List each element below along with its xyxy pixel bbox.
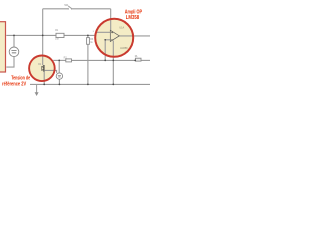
highlight circle op-amp U1 [95,19,133,57]
op-amp U1 +in mark [111,31,113,33]
wire jog to op-amp +in [96,32,111,35]
reference device D1 glyph [42,65,44,72]
switch SW1 lever [68,6,71,9]
wire battery top drop x=14 [13,35,15,47]
wire battery bottom drop x=14 [6,57,14,68]
meter M1 marks [58,76,61,77]
wire op-amp V+ pin [110,9,112,30]
svg-text:LM358: LM358 [126,15,139,21]
voltage source V1 circle [9,47,19,57]
wire sense drop x=59.2 [58,60,60,73]
wire ground rail y=84.4 [30,83,150,85]
meter M1 circle [56,73,62,79]
ground arrow head [35,92,39,96]
op-amp U1 -in mark [111,39,113,41]
load connector J1 [135,58,141,61]
wire sense horizontal y=60.4 right [141,59,150,61]
svg-text:LM358: LM358 [120,47,128,50]
wire below meter circle [58,79,60,84]
ground arrow stem [36,84,38,92]
battery highlight box V1 [0,22,6,72]
wire op-amp V- pin [112,41,114,85]
svg-text:référence 2V: référence 2V [2,81,26,87]
op-amp U1 triangle [110,30,119,41]
resistor R2 [66,59,72,62]
wire top rail left segment [43,8,69,10]
wire op-amp output [119,35,150,37]
highlight ring op-amp U1 [95,19,133,57]
junction node dots [13,35,136,86]
wire R3 top lead [87,35,89,37]
wire main horizontal right of R1 [64,34,96,36]
wire R3 bottom lead to rail [87,44,89,84]
voltage source V1 marks [11,51,16,53]
highlight circle reference D1 [29,56,55,82]
wire feedback stub to -in [105,39,110,41]
highlight ring reference D1 [29,56,55,82]
wire sense horizontal y=60.4 left [53,59,66,61]
svg-text:U1A: U1A [119,26,124,29]
wire cathode drop to rail [43,72,45,85]
switch SW1 posts [68,8,71,10]
wire vertical node A x=42.7 [42,9,44,65]
resistor R1 [56,33,64,37]
wire feedback vertical x=105.2 [104,40,106,61]
wire reference side tap y=70.4 [45,70,57,73]
wire main horizontal y=35.4 [6,34,56,36]
wire top rail right segment [72,8,111,10]
wire sense horizontal y=60.4 mid [72,59,136,61]
resistor R3 [87,38,90,45]
